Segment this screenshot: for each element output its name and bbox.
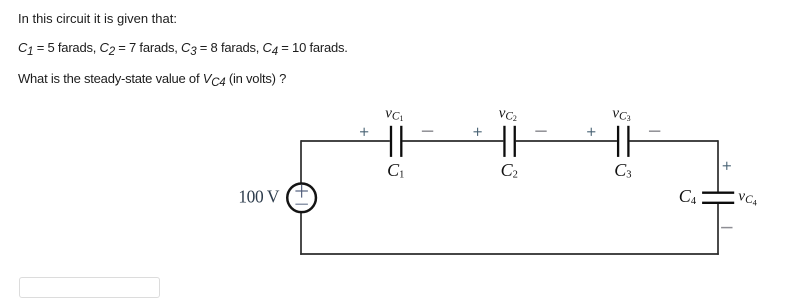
wire right lower xyxy=(717,204,719,255)
wire top segment xyxy=(301,140,390,142)
capacitor C2 plates xyxy=(503,126,505,157)
wire left upper xyxy=(300,140,302,183)
capacitor C3 plates xyxy=(617,126,619,157)
question line 2 xyxy=(18,40,348,55)
minus sign of C3 xyxy=(649,130,660,132)
question line 1 xyxy=(18,11,177,26)
minus sign of C2 xyxy=(535,130,546,132)
voltage source minus xyxy=(295,203,308,205)
svg-text:C1: C1 xyxy=(387,160,404,180)
wire right upper xyxy=(717,140,719,192)
capacitor C4 plates xyxy=(702,192,734,194)
capacitor C1 plates xyxy=(390,126,392,157)
voltage source plus xyxy=(295,185,308,198)
plus sign of C1 xyxy=(360,128,368,136)
minus sign of C1 xyxy=(422,130,433,132)
svg-text:vC4: vC4 xyxy=(738,188,757,207)
plus sign of C2 xyxy=(474,128,482,136)
wire left lower xyxy=(300,212,302,255)
svg-text:C3: C3 xyxy=(614,160,631,180)
svg-text:vC1: vC1 xyxy=(385,105,403,123)
answer input box xyxy=(19,277,160,298)
wire top segment xyxy=(516,140,617,142)
wire bottom xyxy=(300,253,719,255)
wire top segment xyxy=(402,140,503,142)
voltage source circle xyxy=(287,183,316,212)
plus sign of C3 xyxy=(587,128,595,136)
minus sign of C4 xyxy=(721,227,732,229)
svg-text:C2: C2 xyxy=(501,160,518,180)
svg-text:100 V: 100 V xyxy=(238,186,280,206)
wire top segment xyxy=(630,140,718,142)
svg-text:vC2: vC2 xyxy=(499,105,517,123)
svg-text:vC3: vC3 xyxy=(612,105,630,123)
svg-text:C4: C4 xyxy=(679,186,697,207)
question line 3 xyxy=(18,71,286,86)
plus sign of C4 xyxy=(723,162,731,170)
